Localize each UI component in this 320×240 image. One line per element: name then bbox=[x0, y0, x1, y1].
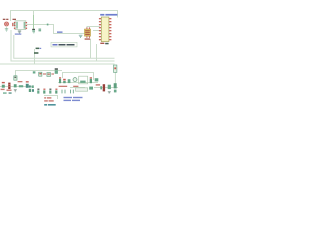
IC2 label bbox=[100, 14, 117, 16]
wire mid row bbox=[16, 71, 63, 77]
capacitor C3 bbox=[39, 29, 42, 32]
transistor Q1 bbox=[39, 72, 42, 76]
wire bottom mid bbox=[70, 87, 85, 89]
resistor R3 bbox=[47, 73, 51, 77]
capacitor C15 bbox=[33, 71, 36, 73]
IC2 bottom text bbox=[100, 43, 104, 44]
capacitor C9 bbox=[59, 77, 61, 78]
wire coil bottom to bus bbox=[90, 39, 92, 59]
small cap row 1 bbox=[37, 89, 39, 90]
resistor R6 bbox=[108, 85, 111, 93]
wire bottom small bbox=[44, 96, 58, 100]
capacitor C11 bbox=[90, 77, 92, 78]
wire net flag drop bbox=[34, 49, 36, 64]
op-amp IC1 bbox=[14, 21, 27, 30]
wire bottom row left bbox=[0, 86, 32, 88]
wire bridge bbox=[63, 73, 94, 81]
capacitor C10 bbox=[63, 79, 65, 83]
capacitor C7 bbox=[26, 81, 29, 82]
IC2 pins left bbox=[99, 18, 101, 40]
resistor R7 bbox=[89, 87, 93, 90]
left cluster caps bbox=[29, 85, 31, 87]
connector pins row bbox=[62, 90, 73, 94]
label red under R3 bbox=[51, 73, 54, 74]
node label AF bbox=[57, 31, 63, 33]
capacitor C6 bbox=[14, 84, 17, 92]
microphone MIC1 bbox=[3, 19, 9, 32]
capacitor C14 bbox=[114, 90, 117, 93]
resistor R5 bbox=[95, 78, 99, 81]
resistor R4 bbox=[68, 79, 71, 83]
small cap row 2 bbox=[43, 89, 45, 90]
junction tick bbox=[47, 24, 49, 26]
antenna component right bbox=[114, 65, 117, 72]
wire coil to IC pin A bbox=[87, 27, 100, 29]
module box bottom bbox=[76, 88, 88, 91]
wire coil to IC pin B bbox=[93, 30, 100, 32]
IC1 ref label bbox=[13, 19, 17, 20]
label red left bbox=[1, 89, 5, 90]
capacitor C2 bbox=[32, 29, 35, 33]
label red mid bbox=[59, 86, 68, 87]
electrolytic C12 bbox=[100, 84, 105, 91]
electrolytic C5 bbox=[8, 83, 10, 89]
label near vertical pair bbox=[15, 33, 21, 34]
boxed title label bbox=[51, 42, 77, 47]
ground under IC1 bbox=[18, 31, 21, 33]
label red left2 bbox=[7, 90, 12, 91]
label red under Q1 bbox=[43, 73, 46, 74]
label 4x800Hz bbox=[44, 104, 47, 106]
small cap row 4 bbox=[55, 89, 57, 90]
label marks bottom left bbox=[3, 92, 7, 93]
wire IC to bus bbox=[96, 44, 98, 61]
label red mid2 bbox=[73, 86, 78, 87]
wire left vertical pair outer bbox=[11, 30, 115, 61]
wire bottom row right bbox=[58, 82, 98, 84]
electrolytic C4 bbox=[2, 82, 5, 88]
wire supply drop bbox=[33, 11, 35, 16]
link text line1 bbox=[64, 97, 73, 98]
transistor Q2 bbox=[73, 78, 77, 82]
IC2 body bbox=[101, 17, 109, 42]
label 1kHz bbox=[44, 97, 46, 98]
wire bottom far right bbox=[94, 87, 118, 89]
wire top rail bbox=[11, 11, 118, 22]
IC2 pins right bbox=[109, 18, 111, 40]
link text line2 bbox=[64, 100, 72, 101]
wire stage1 output bbox=[27, 25, 85, 34]
electrolytic C8 bbox=[55, 68, 58, 73]
coil L1 bbox=[84, 27, 90, 39]
resistor R2 bbox=[19, 85, 23, 87]
crystal box bbox=[79, 76, 88, 84]
wire bus line 3 bbox=[0, 63, 115, 65]
capacitor C13 bbox=[114, 83, 117, 88]
label max center bbox=[44, 100, 48, 101]
label red right bbox=[96, 84, 100, 85]
ground under coil bbox=[79, 35, 83, 37]
net flag label bbox=[36, 48, 40, 50]
capacitor C1 bbox=[12, 23, 15, 26]
small cap row 3 bbox=[49, 89, 51, 90]
wire antenna drop bbox=[114, 73, 116, 85]
wire left vertical pair inner bbox=[14, 35, 115, 58]
resistor R1 bbox=[14, 76, 17, 80]
